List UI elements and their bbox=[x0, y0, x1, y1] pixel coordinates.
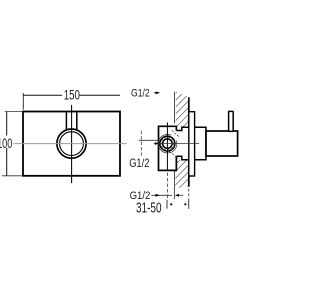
rough-in body (side view) bbox=[159, 126, 177, 170]
hidden chamfer line lower bbox=[169, 151, 178, 158]
wall back face line bbox=[173, 92, 175, 199]
front horizontal centerline bbox=[14, 143, 127, 145]
port thread dashed circle bbox=[161, 137, 173, 149]
G1/2 middle leader line bbox=[139, 131, 159, 156]
front vertical centerline bbox=[71, 105, 73, 183]
handle body bbox=[206, 131, 238, 156]
label G1/2 bottom with leader bbox=[130, 190, 184, 202]
svg-text:150: 150 bbox=[64, 88, 80, 104]
wall hatching bottom section bbox=[168, 144, 196, 206]
front handle circle inner bbox=[60, 132, 84, 156]
port boss thin circle (with gap at upper right) bbox=[158, 134, 177, 153]
flange plate (side view) bbox=[189, 112, 195, 176]
side view vertical centerline bbox=[166, 122, 168, 198]
handle lever bar bbox=[229, 111, 234, 131]
label G1/2 top bbox=[131, 87, 160, 99]
dimension 100 bbox=[0, 112, 22, 176]
wall hatching top section bbox=[168, 73, 196, 142]
front plate bbox=[23, 112, 120, 176]
lever (plan view) lines bbox=[66, 112, 76, 131]
svg-text:31-50: 31-50 bbox=[136, 200, 162, 216]
dimension 31-50 wall depth bbox=[136, 189, 189, 217]
svg-text:G1/2: G1/2 bbox=[131, 87, 150, 99]
hidden chamfer line upper bbox=[172, 130, 179, 136]
wall finished face line bbox=[188, 97, 190, 186]
front handle circle outer bbox=[57, 129, 86, 158]
cartridge tube and neck through wall bbox=[176, 127, 206, 160]
svg-text:G1/2: G1/2 bbox=[129, 156, 150, 170]
port outer circle bbox=[160, 136, 175, 151]
svg-text:100: 100 bbox=[0, 136, 12, 152]
side view horizontal centerline with arrow bbox=[154, 142, 200, 145]
port inner circle bbox=[163, 139, 173, 149]
dimension 150 bbox=[23, 88, 120, 110]
